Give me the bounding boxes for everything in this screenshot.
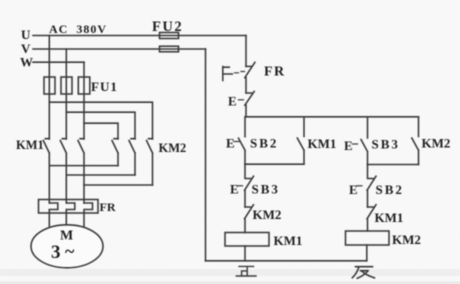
svg-text:~: ~ xyxy=(65,241,75,261)
wire W phase horizontal xyxy=(33,61,84,63)
svg-text:3: 3 xyxy=(51,242,61,263)
svg-text:E: E xyxy=(349,182,358,197)
svg-text:SB3: SB3 xyxy=(372,137,400,152)
svg-text:W: W xyxy=(20,55,33,70)
fuse FU2b xyxy=(160,46,179,52)
contact SB2 NO start-fwd xyxy=(239,117,246,164)
contact SB3 NC left xyxy=(245,164,254,207)
wire branch U to KM2 right column xyxy=(49,102,152,139)
shading bottom edge xyxy=(0,282,460,284)
svg-text:KM1: KM1 xyxy=(16,138,44,152)
thermal relay FR box xyxy=(39,200,99,214)
wire branch V to KM2 middle column xyxy=(66,112,135,139)
wire KM2 out to W xyxy=(84,184,153,186)
label fan xyxy=(352,267,374,279)
heater element 1 xyxy=(49,203,58,226)
svg-text:KM1: KM1 xyxy=(375,210,404,225)
motor M xyxy=(31,225,103,268)
wire KM2 out to U xyxy=(49,165,118,167)
svg-text:SB2: SB2 xyxy=(250,136,278,151)
wire control vertical from U line xyxy=(245,36,247,67)
dashed link SB3 right xyxy=(353,143,358,145)
contact SB3 NO start-rev xyxy=(361,117,368,165)
contact KM1 pole1 xyxy=(43,139,49,203)
dashed link FR xyxy=(235,72,245,73)
svg-text:E: E xyxy=(230,182,239,197)
wire V phase horizontal xyxy=(33,48,206,50)
dashed link SB2 right xyxy=(357,185,362,187)
shading band bottom xyxy=(0,269,460,276)
scan noise xyxy=(0,0,1,1)
contact KM1 pole3 xyxy=(78,139,84,203)
label zheng xyxy=(236,266,256,276)
contact KM2 pole2 xyxy=(129,139,135,175)
svg-text:FR: FR xyxy=(100,200,116,214)
svg-text:KM1: KM1 xyxy=(308,136,337,151)
svg-text:FR: FR xyxy=(264,65,286,80)
wire U phase horizontal xyxy=(33,35,246,37)
svg-text:KM2: KM2 xyxy=(422,136,451,151)
svg-text:E: E xyxy=(228,94,237,109)
wire KM2 out to V xyxy=(66,174,135,176)
fuse FU2a xyxy=(160,33,179,39)
wire left pair bottom bar xyxy=(245,163,304,165)
contact SB2 NC right xyxy=(367,165,376,208)
svg-text:AC 380V: AC 380V xyxy=(49,22,107,36)
fuse FU1b xyxy=(61,77,72,94)
svg-text:KM1: KM1 xyxy=(274,233,303,248)
contact KM1 interlock NC xyxy=(367,205,376,231)
svg-text:SB3: SB3 xyxy=(252,182,280,197)
contact KM2 pole3 xyxy=(147,139,153,185)
wire W phase drop xyxy=(83,62,85,139)
svg-text:KM2: KM2 xyxy=(159,141,187,155)
svg-text:U: U xyxy=(21,27,31,42)
contact KM1 pole2 xyxy=(60,139,66,203)
svg-text:E: E xyxy=(344,138,353,153)
wire KM1 coil to rail xyxy=(244,246,246,261)
svg-text:KM2: KM2 xyxy=(392,232,421,247)
fuse FU1a xyxy=(44,77,55,94)
wire bottom rail xyxy=(206,260,367,262)
contact KM2 interlock NC xyxy=(245,205,254,233)
contact SB1 stop NC xyxy=(245,92,254,117)
heater element 2 xyxy=(66,203,75,226)
wire V phase drop xyxy=(65,49,67,139)
wire right pair bottom bar xyxy=(368,164,419,166)
wire U phase drop xyxy=(48,36,50,140)
contact FR NC xyxy=(245,62,255,93)
coil KM2 xyxy=(346,231,390,245)
contact KM1 aux NO xyxy=(297,117,304,164)
wire V phase control drop xyxy=(205,49,207,261)
svg-text:E: E xyxy=(226,136,235,151)
svg-text:SB2: SB2 xyxy=(376,182,404,197)
wire branch W to KM2 left column xyxy=(84,123,118,139)
svg-text:KM2: KM2 xyxy=(253,207,282,222)
contact KM2 pole1 xyxy=(112,139,118,166)
heater element 3 xyxy=(84,203,93,226)
coil KM1 xyxy=(225,233,269,247)
contact KM2 aux NO xyxy=(412,117,419,165)
dashed link SB3 left xyxy=(238,185,243,187)
svg-text:FU1: FU1 xyxy=(91,79,118,94)
fuse FU1c xyxy=(78,77,90,94)
wire KM2 coil to rail xyxy=(366,245,368,261)
dashed link SB2 xyxy=(234,141,240,143)
wire control bus xyxy=(246,116,419,118)
dashed link E stop xyxy=(239,99,244,101)
thermal actuator FR xyxy=(223,67,233,81)
